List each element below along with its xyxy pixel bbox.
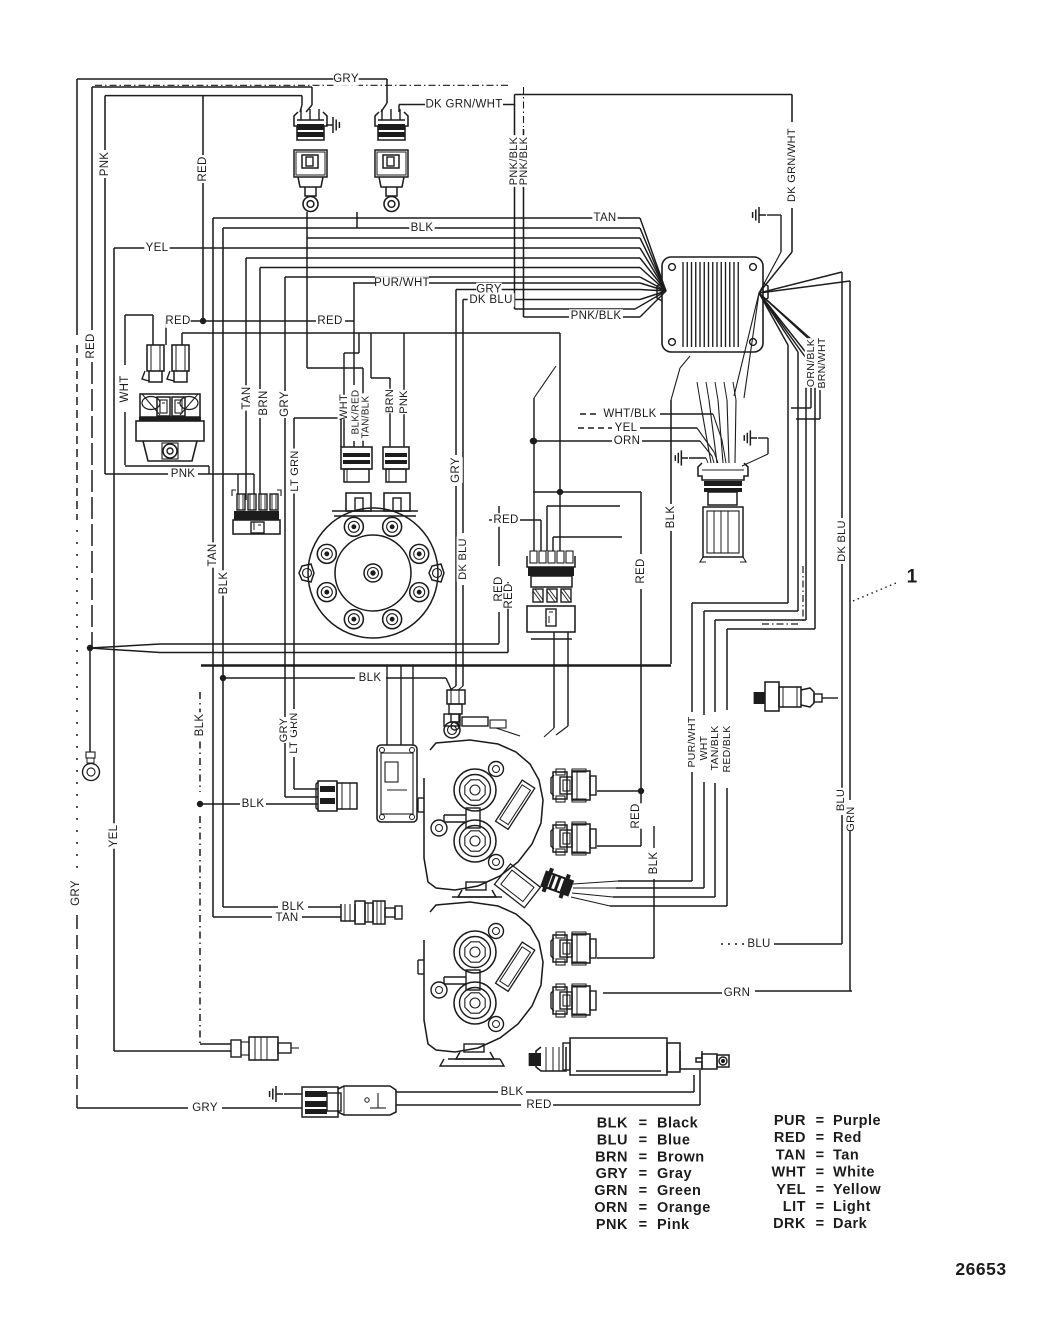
svg-text:=: = <box>816 1216 825 1232</box>
svg-text:YEL: YEL <box>776 1182 806 1198</box>
svg-text:TAN/BLK: TAN/BLK <box>709 725 721 770</box>
svg-text:RED: RED <box>165 315 190 327</box>
svg-text:YEL: YEL <box>108 824 120 847</box>
svg-text:1: 1 <box>907 567 918 588</box>
svg-text:=: = <box>639 1132 648 1148</box>
svg-text:DK BLU: DK BLU <box>836 520 848 562</box>
svg-text:BLK: BLK <box>648 852 660 875</box>
svg-text:PNK: PNK <box>596 1217 628 1233</box>
svg-text:TAN/BLK: TAN/BLK <box>361 395 372 438</box>
svg-text:RED: RED <box>317 315 342 327</box>
svg-text:=: = <box>639 1116 648 1132</box>
svg-text:=: = <box>816 1130 825 1146</box>
svg-text:DK GRN/WHT: DK GRN/WHT <box>786 128 798 202</box>
svg-text:RED: RED <box>635 558 647 583</box>
svg-text:LT GRN: LT GRN <box>289 450 301 491</box>
svg-text:TAN: TAN <box>776 1147 806 1163</box>
svg-text:GRY: GRY <box>192 1102 218 1114</box>
svg-text:ORN: ORN <box>594 1200 628 1216</box>
svg-text:PNK/BLK: PNK/BLK <box>518 136 530 185</box>
svg-text:Red: Red <box>833 1130 862 1146</box>
svg-text:Brown: Brown <box>657 1149 705 1165</box>
svg-text:Orange: Orange <box>657 1200 711 1216</box>
svg-text:WHT: WHT <box>119 375 131 402</box>
svg-text:Tan: Tan <box>833 1147 859 1163</box>
svg-text:WHT: WHT <box>771 1165 806 1181</box>
svg-text:BLK: BLK <box>665 506 677 529</box>
svg-text:GRN: GRN <box>845 806 857 831</box>
svg-text:PUR/WHT: PUR/WHT <box>686 716 698 767</box>
svg-text:=: = <box>639 1217 648 1233</box>
svg-text:BLK: BLK <box>411 222 434 234</box>
svg-text:BLK: BLK <box>194 714 206 737</box>
svg-text:=: = <box>816 1182 825 1198</box>
svg-text:Blue: Blue <box>657 1132 690 1148</box>
svg-text:DK BLU: DK BLU <box>457 538 469 580</box>
svg-text:DK BLU: DK BLU <box>469 294 512 306</box>
svg-text:Pink: Pink <box>657 1217 690 1233</box>
svg-text:=: = <box>816 1113 825 1129</box>
svg-text:RED: RED <box>526 1099 551 1111</box>
svg-text:RED/BLK: RED/BLK <box>721 725 733 772</box>
svg-text:BLU: BLU <box>597 1132 628 1148</box>
svg-text:PNK: PNK <box>99 152 111 177</box>
svg-text:DRK: DRK <box>773 1216 806 1232</box>
svg-text:RED: RED <box>774 1130 806 1146</box>
svg-text:BRN: BRN <box>595 1149 628 1165</box>
svg-text:GRY: GRY <box>278 717 290 742</box>
svg-text:LIT: LIT <box>783 1199 806 1215</box>
svg-text:RED: RED <box>630 803 642 828</box>
svg-text:GRY: GRY <box>596 1166 628 1182</box>
svg-text:Dark: Dark <box>833 1216 868 1232</box>
svg-text:RED: RED <box>493 514 518 526</box>
svg-text:WHT/BLK: WHT/BLK <box>603 408 656 420</box>
svg-text:Green: Green <box>657 1183 701 1199</box>
svg-text:=: = <box>816 1147 825 1163</box>
svg-text:RED: RED <box>503 583 515 608</box>
svg-text:ORN: ORN <box>614 435 640 447</box>
svg-text:TAN: TAN <box>593 212 616 224</box>
svg-text:TAN: TAN <box>275 912 298 924</box>
svg-text:GRY: GRY <box>70 880 82 906</box>
svg-text:PUR/WHT: PUR/WHT <box>374 277 430 289</box>
svg-text:TAN: TAN <box>241 386 253 409</box>
svg-text:=: = <box>639 1149 648 1165</box>
svg-text:TAN: TAN <box>207 543 219 566</box>
svg-text:Purple: Purple <box>833 1113 881 1129</box>
svg-text:PUR: PUR <box>774 1113 806 1129</box>
svg-text:RED: RED <box>85 333 97 358</box>
svg-text:PNK/BLK: PNK/BLK <box>571 310 622 322</box>
svg-text:=: = <box>639 1166 648 1182</box>
svg-text:=: = <box>816 1199 825 1215</box>
svg-text:=: = <box>639 1183 648 1199</box>
svg-text:WHT: WHT <box>338 394 350 420</box>
svg-text:BRN: BRN <box>258 390 270 415</box>
svg-text:White: White <box>833 1165 875 1181</box>
svg-text:Yellow: Yellow <box>833 1182 881 1198</box>
svg-text:RED: RED <box>197 156 209 181</box>
svg-text:BLK: BLK <box>218 572 230 595</box>
svg-text:YEL: YEL <box>146 242 169 254</box>
svg-text:BLK: BLK <box>359 672 382 684</box>
svg-text:BRN: BRN <box>384 389 396 413</box>
svg-text:=: = <box>639 1200 648 1216</box>
svg-text:PNK: PNK <box>398 390 410 414</box>
svg-text:BLK: BLK <box>242 798 265 810</box>
svg-text:BLK: BLK <box>597 1116 628 1132</box>
svg-text:PNK: PNK <box>171 468 196 480</box>
svg-text:BRN/WHT: BRN/WHT <box>816 337 828 388</box>
svg-text:26653: 26653 <box>955 1259 1006 1279</box>
svg-text:Light: Light <box>833 1199 871 1215</box>
svg-text:GRN: GRN <box>594 1183 628 1199</box>
svg-text:GRN: GRN <box>724 987 750 999</box>
svg-text:YEL: YEL <box>615 422 638 434</box>
svg-text:Black: Black <box>657 1116 699 1132</box>
svg-text:GRY: GRY <box>279 391 291 417</box>
svg-text:GRY: GRY <box>333 73 359 85</box>
svg-text:BLK: BLK <box>501 1086 524 1098</box>
svg-text:=: = <box>816 1165 825 1181</box>
svg-text:Gray: Gray <box>657 1166 692 1182</box>
svg-text:DK GRN/WHT: DK GRN/WHT <box>425 99 502 111</box>
svg-text:GRY: GRY <box>450 457 462 483</box>
svg-text:BLU: BLU <box>747 938 770 950</box>
